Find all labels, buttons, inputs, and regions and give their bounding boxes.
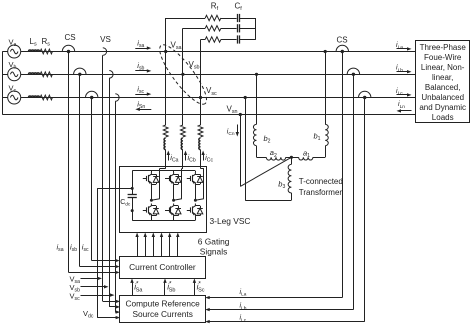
svg-text:Loads: Loads <box>432 113 454 122</box>
svg-text:Current Controller: Current Controller <box>129 262 196 272</box>
svg-text:linear,: linear, <box>432 73 453 82</box>
svg-text:CS: CS <box>64 33 75 42</box>
svg-text:Transformer: Transformer <box>299 188 343 197</box>
svg-text:b3​: b3​ <box>278 179 285 190</box>
svg-text:Foue-Wire: Foue-Wire <box>424 53 462 62</box>
svg-text:Linear, Non-: Linear, Non- <box>421 63 465 72</box>
svg-text:VS: VS <box>100 35 111 44</box>
svg-text:Balanced,: Balanced, <box>425 83 461 92</box>
svg-text:T-connected: T-connected <box>299 177 343 186</box>
svg-text:6 Gating: 6 Gating <box>198 236 230 246</box>
svg-text:Source Currents: Source Currents <box>132 309 192 319</box>
svg-text:Three-Phase: Three-Phase <box>420 43 467 52</box>
svg-text:CS: CS <box>336 35 347 44</box>
svg-text:Compute Reference: Compute Reference <box>126 299 201 309</box>
svg-text:and Dynamic: and Dynamic <box>419 103 466 112</box>
svg-text:Signals: Signals <box>200 246 227 256</box>
svg-text:3-Leg VSC: 3-Leg VSC <box>210 216 251 226</box>
svg-text:Unbalanced: Unbalanced <box>421 93 464 102</box>
